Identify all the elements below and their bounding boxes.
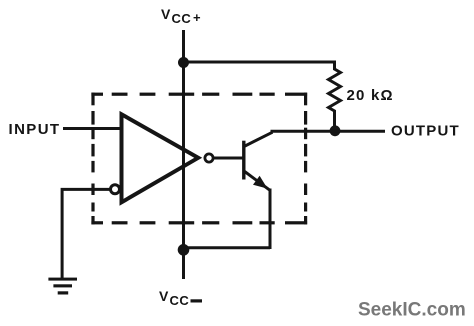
label 20 kOhm xyxy=(347,87,394,104)
svg-text:CC: CC xyxy=(172,11,192,26)
input bubble (strobe) xyxy=(111,185,120,194)
wire strobe bubble to ground xyxy=(62,189,110,278)
svg-text:+: + xyxy=(193,10,201,25)
transistor Q1 emitter xyxy=(244,171,270,190)
svg-text:CC: CC xyxy=(170,293,190,308)
svg-text:SeekIC.com: SeekIC.com xyxy=(358,300,466,321)
transistor Q1 emitter arrow xyxy=(253,176,268,189)
op-amp comparator triangle xyxy=(122,114,199,202)
IC package dashed box U1 xyxy=(91,93,307,225)
svg-text:OUTPUT: OUTPUT xyxy=(391,123,460,140)
wire emitter return to VCC- rail xyxy=(184,246,271,249)
wire bubble to transistor base xyxy=(214,157,245,160)
wire emitter vertical xyxy=(269,189,272,250)
transistor Q1 collector xyxy=(244,132,273,146)
resistor R 20k xyxy=(329,66,341,128)
svg-text:V: V xyxy=(159,288,169,304)
watermark SeekIC.com xyxy=(358,300,466,321)
node VCC+ label xyxy=(161,6,201,26)
transistor Q1 base bar xyxy=(242,141,245,180)
wire VCC+ rail vertical xyxy=(182,30,185,279)
wire INPUT to comparator xyxy=(63,127,123,130)
svg-text:20 kΩ: 20 kΩ xyxy=(347,87,394,104)
node VCC- label xyxy=(159,288,202,308)
node INPUT label xyxy=(9,121,61,138)
junction bottom (emitter to VCC- rail) xyxy=(178,244,190,256)
node OUTPUT label xyxy=(391,123,460,140)
ground xyxy=(48,278,77,295)
junction top (VCC+ to resistor feed) xyxy=(178,57,189,68)
output inversion bubble xyxy=(205,154,213,162)
svg-text:V: V xyxy=(161,6,171,22)
junction output node xyxy=(330,125,341,136)
wire top horizontal to resistor xyxy=(184,62,335,68)
svg-text:INPUT: INPUT xyxy=(9,121,61,138)
wire collector/output horizontal xyxy=(271,130,386,133)
